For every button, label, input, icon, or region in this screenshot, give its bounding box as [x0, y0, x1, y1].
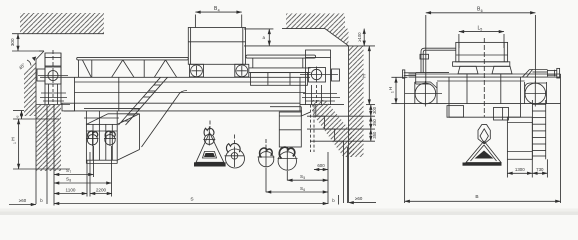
left walkway braces	[79, 60, 177, 77]
trolley wheel left	[191, 65, 203, 77]
svg-text:b: b	[332, 198, 335, 203]
dim >=100 (clearance above girder)	[357, 29, 364, 46]
girder internal verticals	[437, 74, 525, 104]
cab (end view)	[507, 117, 532, 159]
svg-text:1: 1	[390, 91, 394, 93]
corbel hatch	[312, 100, 354, 157]
dim 2200	[90, 187, 112, 193]
right wall lower face lines	[344, 141, 348, 203]
left walkway handrail bar	[77, 57, 189, 60]
dim H1 (buffer height, end view)	[388, 77, 407, 103]
svg-text:H: H	[388, 87, 393, 90]
right ceiling hatch	[286, 14, 345, 29]
cab hook 2 hanger	[109, 131, 111, 135]
trolley wheel housing left	[190, 64, 204, 77]
left wheel plates	[415, 82, 437, 104]
lifting beam hanger line	[209, 121, 211, 130]
ceiling extension stub at trolley	[244, 28, 273, 30]
trolley center line	[483, 38, 485, 117]
svg-text:e: e	[15, 115, 19, 117]
left end truck column	[45, 53, 61, 105]
dim H1 (left hook clearance)	[11, 119, 70, 169]
dim S6	[266, 168, 328, 192]
svg-text:7: 7	[69, 170, 71, 174]
cab depth edges	[86, 114, 139, 160]
bottom extension verticals left	[47, 105, 112, 206]
cab suspension line	[84, 117, 119, 119]
girder left bottom protrusion	[62, 103, 75, 111]
svg-text:1300: 1300	[515, 167, 525, 172]
svg-text:≥60: ≥60	[19, 198, 27, 203]
hook base bar (end view)	[463, 163, 502, 166]
left wall hatch band	[24, 51, 44, 116]
lower flange middle (end view)	[449, 77, 521, 117]
trolley wheel right	[236, 65, 248, 77]
dim 300 (step)	[371, 105, 377, 117]
svg-text:730: 730	[536, 167, 544, 172]
svg-text:H: H	[362, 74, 368, 78]
dim 300 (left ceiling step)	[10, 34, 18, 51]
main hook hanger	[234, 135, 236, 147]
lifting beam top hook	[203, 127, 215, 146]
wall corbel steps	[316, 105, 344, 142]
svg-text:B: B	[475, 194, 478, 200]
girder right end vertical	[299, 77, 301, 111]
right wall corner hatch	[325, 29, 349, 46]
svg-text:b: b	[40, 198, 43, 203]
girder bottom aux line	[84, 107, 140, 109]
stair handrail with top curve	[142, 91, 188, 148]
corbel step extension lines	[307, 105, 375, 142]
left wall face	[35, 60, 37, 205]
right end truck column	[306, 58, 331, 105]
hidden lines below girder right end	[311, 105, 315, 152]
svg-text:1: 1	[13, 142, 17, 144]
operator cab cage	[86, 124, 117, 160]
right wall hatch band	[349, 46, 364, 157]
right ceiling underside line	[282, 28, 325, 30]
aux hook symbol	[278, 147, 298, 170]
right end truck cap	[306, 50, 331, 58]
block below girder right	[494, 108, 509, 121]
cab hook 1	[87, 131, 99, 146]
girder stiffener vertical	[118, 77, 120, 111]
main hook symbol	[225, 143, 245, 168]
access ladder	[532, 100, 545, 159]
lifting beam triangle	[196, 133, 224, 163]
right runway rail detail lines	[302, 94, 340, 102]
svg-text:2200: 2200	[96, 187, 107, 192]
svg-text:350: 350	[372, 118, 377, 126]
left end truck cap	[45, 53, 61, 66]
left end truck center line	[52, 50, 54, 68]
svg-text:350: 350	[372, 131, 377, 139]
dim B4 (trolley wheel base)	[195, 6, 241, 28]
dim 730	[532, 159, 547, 177]
bridge girders bottom line	[405, 103, 561, 105]
dim a (clearance above trolley)	[263, 29, 270, 46]
right walkway deck lines	[249, 68, 311, 73]
svg-text:45°: 45°	[18, 62, 27, 71]
svg-text:300: 300	[10, 38, 15, 46]
svg-text:5: 5	[303, 176, 305, 180]
svg-text:6: 6	[481, 9, 483, 13]
cab skirt	[86, 160, 117, 163]
trolley bottom flange	[453, 62, 510, 67]
right wall corner diagonal	[325, 29, 349, 46]
cab hook 2	[104, 131, 116, 146]
left ceiling underside line	[12, 33, 104, 35]
dim >=60 right	[349, 196, 377, 203]
svg-text:8: 8	[69, 179, 71, 183]
cab hook 1 hanger	[92, 131, 94, 135]
girder mid line	[75, 92, 306, 94]
dim S8	[54, 176, 112, 183]
right crane wheel (left view)	[300, 67, 338, 83]
dim B6 (crane wheel gauge)	[426, 7, 536, 83]
left end truck lower guides	[49, 84, 58, 105]
left buffer (end view)	[403, 70, 416, 78]
left end truck buffer	[37, 69, 45, 81]
svg-text:S: S	[190, 196, 193, 202]
right buffer (end view)	[547, 68, 560, 78]
crane wheel right (end view)	[525, 81, 546, 107]
dim 1100	[54, 187, 87, 193]
trolley frame (end view)	[456, 42, 508, 61]
dim 600	[314, 152, 328, 204]
left ceiling step line	[12, 50, 44, 52]
girder top flange second line	[75, 81, 306, 83]
svg-text:300: 300	[372, 106, 377, 114]
long clearance line under right ceiling	[244, 45, 375, 47]
left end carriage body	[416, 73, 449, 84]
svg-text:1100: 1100	[66, 187, 76, 192]
girder bottom line	[64, 110, 302, 112]
hook block sheave case (end view)	[478, 125, 490, 144]
right end truck lower guides	[312, 85, 322, 105]
right handrail wedge	[522, 70, 547, 78]
girder lower line	[75, 102, 301, 104]
lifting beam base bar	[194, 162, 226, 166]
right wall face	[348, 46, 350, 203]
aux hook hanger	[286, 147, 288, 151]
inclined stair stringer 1	[119, 77, 161, 125]
girder right-end wedge	[270, 107, 310, 116]
block below girder left	[447, 106, 464, 118]
dim H (rail height)	[362, 46, 370, 105]
svg-text:≥60: ≥60	[355, 196, 363, 201]
paper scan shade at bottom edge	[0, 209, 578, 216]
girder right end edge / B extension	[560, 74, 562, 203]
dim 350 lower (step)	[371, 129, 377, 141]
girder left end vertical	[74, 77, 76, 111]
svg-text:6: 6	[303, 188, 305, 192]
trolley support pad right	[492, 66, 512, 74]
dim S7	[54, 168, 94, 175]
dim e (girder to cab gap)	[13, 111, 59, 120]
svg-text:≥100: ≥100	[357, 32, 362, 42]
right walkway posts	[253, 58, 303, 68]
svg-text:a: a	[263, 35, 266, 40]
right walkway handrail bar	[246, 55, 316, 58]
svg-text:600: 600	[317, 163, 325, 168]
right end truck buffer	[332, 69, 340, 81]
cab cage bars	[93, 124, 112, 160]
dim 1300	[507, 159, 532, 177]
svg-text:4: 4	[218, 8, 220, 12]
right runway rail top line	[300, 104, 344, 106]
bridge girder top (trolley rail) line	[40, 76, 310, 78]
right wheel plates	[525, 82, 547, 104]
left runway beam hatch block	[37, 105, 62, 171]
drive machinery housing on girder	[251, 73, 308, 86]
dim B (overall width)	[405, 78, 561, 203]
left handrail bent pipe	[420, 48, 456, 72]
left ceiling hatch	[20, 13, 104, 34]
trolley frame (crab)	[188, 28, 245, 65]
cab suspension verticals	[86, 111, 117, 125]
left crane wheel (left)	[38, 68, 68, 83]
dim 350 (step)	[371, 116, 377, 129]
small hook symbol	[258, 148, 275, 167]
svg-text:H: H	[11, 137, 17, 141]
svg-text:5: 5	[480, 28, 482, 32]
dim L5 (trolley gauge)	[459, 25, 504, 48]
bridge girders top lines (end view)	[409, 74, 561, 77]
crane wheel left (end view)	[405, 81, 442, 107]
left runway rail top line	[36, 104, 70, 106]
lifting beam bands	[203, 152, 217, 159]
dim S (span)	[54, 196, 328, 203]
small hook hanger	[265, 139, 267, 150]
trolley wheel housing right	[235, 64, 249, 77]
right end truck wheel box	[309, 68, 326, 83]
left end truck wheel box	[45, 67, 61, 84]
under-girder hoist housing block	[279, 112, 301, 147]
left wall 45-degree corner	[36, 51, 44, 60]
trolley support pad left	[458, 66, 478, 74]
dim >=60 left	[9, 198, 36, 205]
hook triangle (end view)	[466, 141, 501, 163]
stair rungs	[122, 85, 161, 121]
label b right	[332, 195, 338, 205]
dim S5	[287, 171, 328, 181]
hook triangle inner dark wedge	[475, 151, 494, 159]
label 45deg with leader	[18, 57, 36, 71]
left runway rail detail lines	[40, 93, 67, 101]
inclined stair stringer 2	[126, 77, 168, 125]
